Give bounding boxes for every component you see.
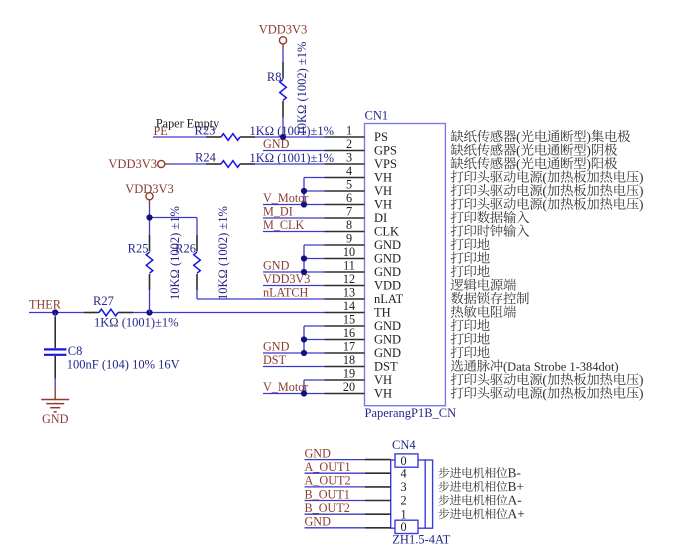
designator C8	[68, 344, 83, 358]
CN1 pin 8 (CLK)	[325, 218, 400, 238]
designator R24	[195, 151, 217, 165]
value R23 1KΩ (1001)±1%	[250, 124, 335, 138]
CN4 pin number 1	[400, 507, 406, 521]
CN1 pin 14 (TH)	[325, 299, 391, 319]
wire GND net label to CN1 pin 2	[263, 150, 325, 152]
svg-text:M_DI: M_DI	[263, 204, 293, 218]
junction pin 17	[301, 350, 307, 356]
svg-text:13: 13	[343, 286, 355, 300]
annotation pin 13: 数据锁存控制	[451, 292, 529, 304]
svg-text:R8: R8	[267, 70, 282, 84]
svg-text:8: 8	[346, 218, 352, 232]
svg-text:3: 3	[346, 151, 352, 165]
net label VDD3V3 (pin 12)	[263, 272, 310, 286]
svg-text:VPS: VPS	[374, 157, 397, 171]
CN1 pin 20 (VH)	[325, 380, 393, 400]
CN1 pin 3 (VPS)	[325, 151, 397, 171]
ground symbol GND below C8	[41, 387, 69, 427]
wire V_Motor bus to CN1 pins 4-6	[263, 178, 325, 205]
CN1 pin 6 (VH)	[325, 191, 393, 211]
CN4 pin number 3	[400, 480, 406, 494]
svg-text:B_OUT1: B_OUT1	[305, 487, 350, 501]
net label GND (CN4)	[305, 446, 332, 460]
net label A_OUT2 (CN4)	[305, 474, 351, 488]
annotation pin 12: 逻辑电源端	[451, 278, 516, 290]
svg-text:10: 10	[343, 245, 355, 259]
svg-text:1: 1	[346, 124, 352, 138]
junction pin 6	[301, 201, 307, 207]
junction R25 on TH wire	[146, 309, 152, 315]
CN4 wire and pin for B_OUT1	[305, 500, 391, 502]
junction pin 20	[301, 390, 307, 396]
svg-text:A_OUT1: A_OUT1	[305, 460, 351, 474]
svg-text:GND: GND	[42, 412, 69, 426]
CN1 pin 15 (GND)	[325, 313, 402, 333]
annotation CN4: 步进电机相位A-	[438, 494, 521, 505]
svg-text:VDD3V3: VDD3V3	[259, 22, 308, 36]
wire VDD3V3 through R24 to CN1 pin 3	[170, 163, 325, 165]
svg-text:GND: GND	[374, 333, 401, 347]
junction C8 tap on TH wire	[52, 309, 58, 315]
CN1 pin 4 (VH)	[325, 164, 393, 184]
svg-text:7: 7	[346, 205, 352, 219]
svg-text:3: 3	[400, 480, 406, 494]
svg-text:GPS: GPS	[374, 144, 397, 158]
wire GND bus to CN1 pins 9-11	[263, 245, 325, 272]
wire VDD3V3 to R25 and R26 branch	[150, 205, 198, 235]
power symbol VDD3V3 at R24	[108, 157, 169, 171]
svg-text:VH: VH	[374, 184, 392, 198]
CN4 wire and pin for A_OUT2	[305, 486, 391, 488]
svg-text:M_CLK: M_CLK	[263, 218, 305, 232]
resistor R23 1K on pin 1	[206, 134, 255, 141]
svg-text:VH: VH	[374, 198, 392, 212]
CN1 pin 13 (nLAT)	[325, 286, 404, 306]
svg-text:VDD: VDD	[374, 279, 401, 293]
net label nLATCH	[263, 285, 309, 299]
svg-text:GND: GND	[374, 346, 401, 360]
net label PE	[154, 124, 168, 138]
svg-text:THER: THER	[29, 298, 62, 312]
junction pin 5	[301, 188, 307, 194]
CN1 pin 2 (GPS)	[325, 137, 397, 157]
annotation pin 7: 打印数据输入	[451, 211, 529, 223]
svg-text:V_Motor: V_Motor	[263, 191, 308, 205]
designator CN4	[392, 438, 416, 452]
CN1 pin 16 (GND)	[325, 326, 402, 346]
svg-text:GND: GND	[263, 137, 290, 151]
value C8 100nF (104) 10% 16V	[67, 358, 180, 372]
svg-text:PS: PS	[374, 130, 388, 144]
annotation pin 17: 打印地	[451, 346, 490, 358]
CN4 pin number 2	[400, 494, 406, 508]
wire GND bus to CN1 pins 15-17	[263, 326, 325, 353]
CN4 pin 0 box top	[395, 454, 418, 468]
designator R23	[195, 124, 216, 138]
CN1 pin 10 (GND)	[325, 245, 402, 265]
svg-text:14: 14	[343, 299, 355, 313]
annotation pin 8: 打印时钟输入	[451, 224, 529, 236]
svg-text:GND: GND	[305, 515, 332, 529]
junction R25/R26 branch	[146, 214, 152, 220]
svg-text:GND: GND	[305, 446, 332, 460]
svg-text:VDD3V3: VDD3V3	[263, 272, 310, 286]
svg-text:12: 12	[343, 272, 355, 286]
CN1 pin 18 (DST)	[325, 353, 398, 373]
wire R26 to nLATCH CN1 pin 13	[197, 290, 325, 299]
designator R27	[93, 294, 114, 308]
svg-text:1KΩ (1001)±1%: 1KΩ (1001)±1%	[250, 151, 335, 165]
connector CN1 body	[365, 124, 446, 406]
net label GND (pin 11)	[263, 258, 290, 272]
svg-text:R24: R24	[195, 151, 217, 165]
svg-text:C8: C8	[68, 344, 83, 358]
net label B_OUT1 (CN4)	[305, 487, 350, 501]
wire VDD3V3 label to CN1 pin 12	[263, 285, 325, 287]
connector CN4 body	[391, 460, 433, 528]
part name PaperangP1B_CN	[365, 406, 457, 420]
net label GND (pin 17)	[263, 339, 290, 353]
svg-text:VH: VH	[374, 387, 392, 401]
net label B_OUT2 (CN4)	[305, 501, 350, 515]
wire THER / TH net to CN1 pin 14	[29, 312, 325, 314]
junction pin 16	[301, 336, 307, 342]
svg-text:5: 5	[346, 178, 352, 192]
svg-text:17: 17	[343, 340, 355, 354]
CN4 wire and pin for GND	[305, 527, 391, 529]
svg-text:PaperangP1B_CN: PaperangP1B_CN	[365, 406, 457, 420]
svg-text:GND: GND	[374, 238, 401, 252]
wire DST to CN1 pin 18	[263, 366, 325, 368]
designator R26	[175, 241, 196, 255]
svg-text:R26: R26	[175, 241, 196, 255]
net label V_Motor (pin 20)	[263, 380, 308, 394]
resistor R8 10K pull-up	[280, 62, 287, 118]
CN1 pin 9 (GND)	[325, 232, 402, 252]
svg-text:ZH1.5-4AT: ZH1.5-4AT	[392, 533, 450, 547]
svg-text:DST: DST	[374, 360, 398, 374]
value R24 1KΩ (1001)±1%	[250, 151, 335, 165]
svg-text:GND: GND	[263, 339, 290, 353]
CN1 pin 7 (DI)	[325, 205, 388, 225]
wire R25 bottom to TH net	[149, 290, 151, 313]
annotation pin 15: 打印地	[451, 319, 490, 331]
capacitor C8 100nF	[44, 317, 66, 387]
junction R8 / pin 1 wire	[280, 134, 286, 140]
svg-text:GND: GND	[263, 258, 290, 272]
annotation pin 2: 缺纸传感器(光电通断型)阴极	[451, 143, 617, 157]
svg-text:A_OUT2: A_OUT2	[305, 474, 351, 488]
CN4 wire and pin for A_OUT1	[305, 472, 391, 474]
annotation pin 19: 打印头驱动电源(加热板加热电压)	[451, 373, 643, 387]
annotation pin 11: 打印地	[451, 265, 490, 277]
svg-text:R25: R25	[128, 241, 149, 255]
CN4 pin 0 box bottom	[395, 520, 418, 534]
junction pin 10	[301, 255, 307, 261]
annotation pin 3: 缺纸传感器(光电通断型)阳极	[451, 157, 617, 171]
svg-text:4: 4	[400, 466, 406, 480]
net label GND (CN4)	[305, 515, 332, 529]
designator CN1	[365, 109, 389, 123]
annotation pin 4: 打印头驱动电源(加热板加热电压)	[451, 170, 643, 184]
designator R8	[267, 70, 282, 84]
svg-text:10KΩ (1002) ±1%: 10KΩ (1002) ±1%	[295, 42, 309, 136]
net label THER	[29, 298, 62, 312]
resistor R27 1K on TH net	[84, 309, 133, 316]
svg-text:VDD3V3: VDD3V3	[108, 157, 157, 171]
annotation pin 20: 打印头驱动电源(加热板加热电压)	[451, 386, 643, 400]
resistor R25 10K	[146, 235, 153, 290]
value R8 10KΩ (1002) ±1% rotated	[295, 42, 309, 136]
svg-text:V_Motor: V_Motor	[263, 380, 308, 394]
annotation pin 5: 打印头驱动电源(加热板加热电压)	[451, 184, 643, 198]
CN1 pin 5 (VH)	[325, 178, 393, 198]
svg-text:Paper Empty: Paper Empty	[156, 116, 220, 130]
svg-text:CN1: CN1	[365, 109, 389, 123]
annotation CN4: 步进电机相位B+	[438, 481, 523, 492]
svg-text:VH: VH	[374, 171, 392, 185]
power symbol VDD3V3 above R25 and R26	[125, 182, 174, 205]
svg-text:VH: VH	[374, 373, 392, 387]
svg-text:2: 2	[400, 494, 406, 508]
svg-text:100nF (104) 10% 16V: 100nF (104) 10% 16V	[67, 358, 180, 372]
wire M_CLK to CN1 pin 8	[263, 231, 325, 233]
resistor R24 1K on pin 3	[206, 161, 255, 168]
wire R8 to pin1 net	[282, 49, 284, 137]
svg-text:DST: DST	[263, 353, 287, 367]
svg-text:9: 9	[346, 232, 352, 246]
annotation pin 6: 打印头驱动电源(加热板加热电压)	[451, 197, 643, 211]
svg-text:TH: TH	[374, 306, 391, 320]
svg-text:CN4: CN4	[392, 438, 416, 452]
svg-text:GND: GND	[374, 265, 401, 279]
svg-text:20: 20	[343, 380, 355, 394]
value R26 10KΩ (1002) ±1% rotated	[216, 206, 230, 300]
svg-text:15: 15	[343, 313, 355, 327]
svg-text:VDD3V3: VDD3V3	[125, 182, 174, 196]
CN1 pin 17 (GND)	[325, 340, 402, 360]
power symbol VDD3V3 above R8	[259, 22, 308, 49]
wire V_Motor to CN1 pins 19-20	[263, 380, 325, 394]
CN4 wire and pin for GND	[305, 459, 391, 461]
net label M_CLK	[263, 218, 305, 232]
svg-text:2: 2	[346, 137, 352, 151]
CN1 pin 1 (PS)	[325, 124, 388, 144]
CN4 wire and pin for B_OUT2	[305, 513, 391, 515]
svg-text:1: 1	[400, 507, 406, 521]
part name ZH1.5-4AT	[392, 533, 450, 547]
resistor R26 10K	[194, 235, 201, 290]
CN4 pin number 4	[400, 466, 406, 480]
svg-text:10KΩ (1002) ±1%: 10KΩ (1002) ±1%	[216, 206, 230, 300]
svg-text:16: 16	[343, 326, 355, 340]
value R25 10KΩ (1002) ±1% rotated	[168, 206, 182, 300]
CN1 pin 11 (GND)	[325, 259, 402, 279]
net label GND (pin 2)	[263, 137, 290, 151]
svg-text:GND: GND	[374, 319, 401, 333]
wire TH node down to C8	[54, 313, 56, 318]
svg-text:B_OUT2: B_OUT2	[305, 501, 350, 515]
annotation pin 18: 选通脉冲(Data Strobe 1-384dot)	[451, 360, 618, 374]
svg-text:nLAT: nLAT	[374, 292, 404, 306]
designator R25	[128, 241, 149, 255]
svg-text:nLATCH: nLATCH	[263, 285, 309, 299]
annotation pin 9: 打印地	[451, 238, 490, 250]
svg-text:4: 4	[346, 164, 352, 178]
CN1 pin 12 (VDD)	[325, 272, 402, 292]
svg-text:CLK: CLK	[374, 225, 399, 239]
annotation CN4: 步进电机相位A+	[438, 508, 524, 519]
svg-text:DI: DI	[374, 211, 387, 225]
label Paper Empty	[156, 116, 220, 130]
annotation pin 16: 打印地	[451, 333, 490, 345]
annotation pin 14: 热敏电阻端	[451, 305, 516, 317]
svg-text:1KΩ (1001)±1%: 1KΩ (1001)±1%	[94, 315, 179, 329]
svg-text:6: 6	[346, 191, 352, 205]
svg-text:19: 19	[343, 367, 355, 381]
annotation pin 10: 打印地	[451, 252, 490, 264]
annotation pin 1: 缺纸传感器(光电通断型)集电极	[451, 130, 630, 144]
wire PE net to R23 (CN1 pin 1)	[153, 136, 325, 138]
net label M_DI	[263, 204, 293, 218]
net label DST	[263, 353, 287, 367]
svg-text:R27: R27	[93, 294, 114, 308]
value R27 1KΩ (1001)±1%	[94, 315, 179, 329]
svg-text:GND: GND	[374, 252, 401, 266]
net label V_Motor (pin 6)	[263, 191, 308, 205]
CN1 pin 19 (VH)	[325, 367, 393, 387]
wire M_DI to CN1 pin 7	[263, 217, 325, 219]
svg-text:18: 18	[343, 353, 355, 367]
annotation CN4: 步进电机相位B-	[438, 467, 520, 478]
junction pin 11	[301, 269, 307, 275]
net label A_OUT1 (CN4)	[305, 460, 351, 474]
svg-text:11: 11	[343, 259, 355, 273]
